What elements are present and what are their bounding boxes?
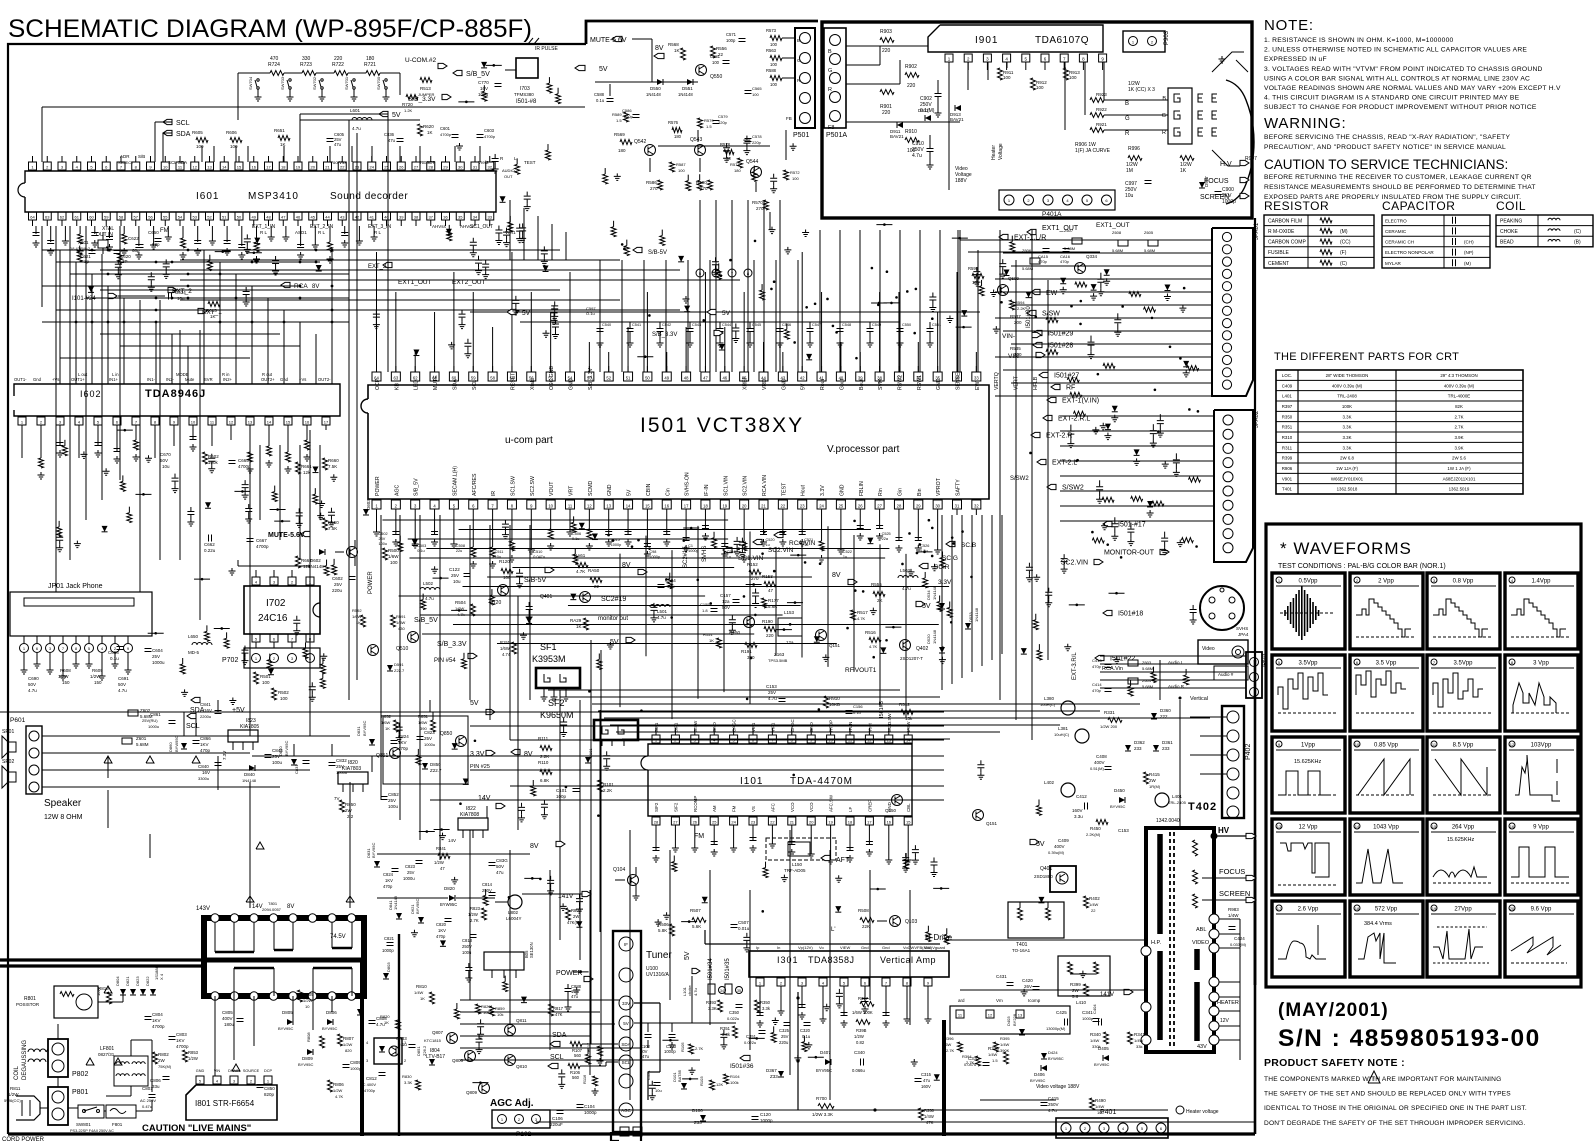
node	[331, 285, 334, 288]
node	[607, 534, 610, 537]
node	[908, 532, 911, 535]
CRT electrode	[1198, 128, 1203, 136]
svg-text:3.3V: 3.3V	[820, 485, 826, 496]
pin 58 I501 top	[488, 372, 497, 381]
svg-text:D821: D821	[125, 976, 130, 986]
svg-text:SIF1: SIF1	[654, 722, 659, 732]
svg-text:L380: L380	[1044, 696, 1055, 701]
coil L150 TRF-AD05	[766, 838, 836, 860]
svg-text:ADR: ADR	[120, 154, 130, 159]
svg-text:12a: 12a	[722, 599, 730, 604]
svg-text:K3953M: K3953M	[532, 654, 566, 664]
svg-text:22u: 22u	[456, 549, 462, 553]
wire	[117, 429, 133, 431]
pin 8 I501 bottom	[507, 500, 516, 509]
svg-text:CREF: CREF	[867, 800, 872, 812]
wire	[1060, 460, 1214, 462]
pin 26 I601 top	[397, 162, 405, 170]
wire	[746, 583, 762, 585]
svg-text:1/4W: 1/4W	[414, 990, 424, 995]
wire	[419, 831, 435, 833]
pin 4 I601 top	[73, 162, 81, 170]
svg-text:C106: C106	[552, 1116, 563, 1121]
svg-text:100K: 100K	[1342, 404, 1352, 409]
wire	[1011, 304, 1212, 306]
capacitor	[867, 329, 874, 332]
svg-text:Rin: Rin	[878, 488, 884, 496]
pin 51 I601 bottom	[220, 212, 228, 220]
tag 8V top	[654, 53, 664, 58]
safety triangle symbol	[1368, 1071, 1380, 1083]
wire	[1060, 505, 1214, 507]
T801 bottom pin 7	[328, 992, 336, 1000]
wire	[101, 254, 103, 500]
node	[951, 536, 954, 539]
pin 58 I601 bottom	[117, 212, 125, 220]
tag 8V right	[848, 579, 857, 584]
svg-text:C340: C340	[854, 1050, 865, 1055]
wire I301 pin drop	[822, 992, 824, 1016]
wire	[497, 643, 837, 645]
svg-text:TEST: TEST	[781, 482, 787, 496]
wire	[821, 292, 823, 372]
svg-text:12K: 12K	[716, 1082, 723, 1087]
node	[871, 267, 874, 270]
svg-text:64: 64	[30, 214, 35, 219]
capacitor C157	[733, 600, 740, 603]
svg-text:35: 35	[458, 214, 463, 219]
node	[961, 530, 964, 533]
capacitor	[687, 329, 694, 332]
svg-text:R921: R921	[1096, 122, 1107, 127]
svg-text:AC 400V: AC 400V	[360, 1082, 376, 1087]
svg-text:53: 53	[193, 214, 198, 219]
pin 39 I601 bottom	[397, 212, 405, 220]
wire	[382, 519, 728, 521]
resistor	[697, 180, 702, 190]
svg-text:100u: 100u	[462, 950, 472, 955]
svg-text:R516: R516	[865, 630, 876, 635]
svg-text:10u: 10u	[495, 555, 501, 559]
pin 13 I101 top	[885, 735, 893, 743]
svg-text:BYW95C: BYW95C	[174, 735, 179, 752]
resistor R901	[880, 90, 894, 95]
svg-text:KIA7808: KIA7808	[460, 812, 479, 818]
ground	[411, 930, 418, 937]
svg-text:C120: C120	[760, 1112, 771, 1117]
svg-text:HEATER: HEATER	[1217, 1000, 1239, 1006]
capacitor	[472, 238, 474, 242]
svg-text:G: G	[797, 58, 801, 63]
wire	[267, 298, 269, 384]
node	[459, 802, 462, 805]
svg-text:39: 39	[399, 214, 404, 219]
ground	[931, 564, 938, 571]
pin 30 I501 bottom	[933, 500, 942, 509]
svg-text:VERTQ: VERTQ	[994, 372, 1000, 390]
transistor Q811	[505, 1025, 516, 1036]
svg-text:I602: I602	[80, 389, 102, 399]
waveforms panel	[1266, 524, 1581, 987]
svg-text:0.022u: 0.022u	[727, 1016, 739, 1021]
svg-text:13: 13	[248, 419, 253, 424]
svg-text:SC2.VIN: SC2.VIN	[743, 476, 749, 496]
wire	[776, 629, 792, 631]
resistor R810	[430, 992, 435, 1004]
svg-text:2W 6.8: 2W 6.8	[1340, 456, 1354, 461]
svg-text:H.P.: H.P.	[1151, 940, 1161, 946]
svg-text:C98: C98	[649, 550, 656, 554]
node	[793, 341, 796, 344]
capacitor C104	[577, 1105, 584, 1108]
capacitor C341	[1093, 1019, 1100, 1022]
svg-text:SC2#19: SC2#19	[601, 596, 626, 603]
svg-text:BYV95C: BYV95C	[322, 1026, 337, 1031]
pin 20 I601 top	[309, 162, 317, 170]
wire	[454, 146, 456, 162]
node	[539, 878, 542, 881]
svg-text:5.68M: 5.68M	[1064, 246, 1075, 251]
resistor	[454, 1009, 459, 1019]
svg-text:I501#34: I501#34	[708, 958, 714, 980]
wire I501 pin drop	[840, 515, 842, 547]
capacitor C888	[565, 989, 572, 992]
wire	[723, 551, 725, 692]
node	[187, 249, 190, 252]
svg-text:1043 Vpp: 1043 Vpp	[1373, 825, 1399, 831]
diode D450	[1119, 797, 1125, 803]
pin 8 I602	[151, 417, 159, 425]
svg-text:EXT_2: EXT_2	[172, 288, 192, 295]
svg-text:470p: 470p	[1092, 664, 1102, 669]
pin 10 I501 bottom	[546, 500, 555, 509]
capacitor	[521, 803, 523, 807]
resistor R450	[1096, 820, 1108, 825]
wire I501 pin drop	[763, 515, 765, 535]
resistor	[78, 234, 83, 244]
svg-text:18: 18	[281, 164, 286, 169]
svg-text:47u: 47u	[642, 1054, 650, 1059]
capacitor	[498, 226, 500, 230]
svg-text:100u: 100u	[272, 760, 283, 765]
svg-text:16: 16	[305, 419, 310, 424]
svg-text:Vo: Vo	[819, 945, 824, 950]
svg-text:20: 20	[1510, 906, 1515, 911]
svg-text:DCP: DCP	[264, 1069, 272, 1073]
svg-text:180: 180	[734, 168, 741, 173]
svg-text:15.625KHz: 15.625KHz	[1294, 759, 1321, 765]
svg-text:560: 560	[572, 1075, 580, 1080]
wire	[180, 259, 620, 261]
pin 3 I601 top	[58, 162, 66, 170]
resistor R350	[755, 1000, 760, 1012]
svg-text:D997: D997	[1204, 176, 1209, 187]
svg-text:Audio #: Audio #	[1218, 672, 1234, 677]
pin 1 I901	[945, 54, 953, 62]
pin 8 JP01	[72, 644, 81, 653]
wire	[604, 717, 1210, 719]
node	[886, 270, 889, 273]
svg-text:47K(M): 47K(M)	[567, 920, 581, 925]
svg-text:1/4W: 1/4W	[1000, 1042, 1010, 1047]
wire	[451, 609, 467, 611]
svg-text:B: B	[828, 49, 832, 55]
svg-text:C665: C665	[238, 458, 249, 463]
svg-text:1362.5019: 1362.5019	[1449, 487, 1470, 492]
pin 14 I101 top	[904, 735, 912, 743]
svg-text:R808: R808	[306, 1032, 311, 1042]
resistor R615	[208, 302, 220, 307]
svg-text:CERAMIC CH: CERAMIC CH	[1385, 240, 1414, 245]
diode D100	[700, 1115, 706, 1121]
resistor R580	[708, 180, 713, 190]
wire	[715, 200, 717, 372]
svg-text:D591: D591	[394, 662, 404, 667]
resistor R922	[1090, 113, 1104, 118]
svg-text:R570: R570	[752, 200, 763, 205]
wire HV	[1214, 835, 1246, 837]
capacitor	[341, 233, 348, 236]
tag S/B_3.3V top	[442, 94, 451, 99]
svg-text:18: 18	[1355, 906, 1360, 911]
ground	[794, 1055, 801, 1062]
svg-text:0.5Vpp: 0.5Vpp	[1298, 579, 1318, 585]
svg-text:TDA8358J: TDA8358J	[808, 955, 855, 965]
svg-text:2.7K: 2.7K	[470, 918, 479, 923]
pin 23 I101 bottom	[749, 817, 757, 825]
svg-text:C836: C836	[384, 132, 395, 137]
tag SDA tuner	[550, 1041, 560, 1046]
wire	[219, 262, 221, 384]
svg-text:Z33: Z33	[694, 1120, 702, 1125]
svg-text:FOCUS: FOCUS	[1219, 867, 1245, 876]
pin 61 I601 bottom	[73, 212, 81, 220]
node	[107, 249, 110, 252]
svg-text:CARBON FILM: CARBON FILM	[1268, 218, 1302, 224]
resistor	[1144, 307, 1156, 312]
tag SCL tuner	[548, 1063, 558, 1068]
wire I602 pin drop	[192, 430, 194, 440]
capacitor C634	[118, 295, 165, 297]
svg-text:Xtalo: Xtalo	[530, 378, 536, 390]
transistor Q334	[1075, 263, 1086, 274]
wire	[85, 226, 87, 520]
capacitor C650	[155, 239, 162, 242]
svg-text:1/4W: 1/4W	[988, 1052, 998, 1057]
svg-text:C1: C1	[688, 544, 693, 548]
transistor Q601 mute	[347, 547, 358, 558]
connector P401A	[999, 190, 1115, 210]
resistor	[207, 261, 212, 271]
svg-text:VIF1: VIF1	[751, 722, 756, 732]
wire	[399, 595, 705, 597]
pin 52 I501 top	[604, 372, 613, 381]
wire	[801, 544, 803, 657]
FOCUS tag	[1240, 177, 1249, 182]
node	[854, 589, 857, 592]
diode D911	[897, 122, 903, 128]
svg-text:POWER: POWER	[556, 970, 582, 977]
pin 22 I101 bottom	[768, 817, 776, 825]
capacitor C155	[711, 609, 718, 612]
node	[853, 520, 856, 523]
svg-text:O.1u: O.1u	[586, 311, 595, 316]
svg-text:C821: C821	[384, 936, 395, 941]
svg-text:C549: C549	[872, 323, 881, 327]
wires top switches to I601	[399, 73, 401, 95]
wire I501 pin drop	[801, 515, 803, 535]
node	[970, 576, 973, 579]
svg-text:9.6 Vpp: 9.6 Vpp	[1531, 907, 1552, 913]
pin 7 I301	[882, 978, 890, 986]
wire	[819, 230, 821, 372]
wire	[100, 269, 680, 271]
wire	[951, 515, 953, 684]
svg-text:100: 100	[230, 144, 238, 149]
diode	[934, 1074, 940, 1080]
node	[299, 285, 302, 288]
capacitor C350	[736, 1005, 743, 1008]
tag 5V rail3	[707, 309, 716, 314]
tag EW	[1031, 289, 1040, 294]
pin 6 I101 top	[749, 735, 757, 743]
ground	[450, 541, 457, 548]
wires H area	[944, 939, 1146, 941]
resistor	[784, 329, 789, 339]
capacitor	[711, 842, 718, 845]
svg-text:R620: R620	[423, 124, 434, 129]
svg-text:MD-5: MD-5	[188, 650, 199, 655]
svg-text:ELECTRO NONPOLAR: ELECTRO NONPOLAR	[1385, 250, 1434, 255]
svg-text:SOURCE: SOURCE	[243, 1069, 260, 1073]
svg-text:Z606: Z606	[1022, 248, 1032, 253]
svg-text:TO-16A1: TO-16A1	[1012, 948, 1031, 953]
resistor R576	[672, 128, 682, 133]
tag SCL2	[187, 713, 196, 718]
wire	[671, 550, 673, 719]
pin 16 I501 bottom	[662, 500, 671, 509]
svg-text:7.5K: 7.5K	[328, 464, 337, 469]
svg-text:10: 10	[163, 164, 168, 169]
rail above I501	[470, 311, 980, 313]
svg-text:AC 250V: AC 250V	[140, 1098, 156, 1103]
svg-text:SCL: SCL	[176, 120, 190, 127]
ground	[165, 234, 172, 241]
svg-text:20: 20	[742, 503, 747, 508]
svg-text:CAUTION "LIVE MAINS": CAUTION "LIVE MAINS"	[142, 1123, 251, 1134]
svg-text:L in: L in	[112, 372, 119, 377]
capacitor C504	[658, 585, 665, 588]
svg-text:R922: R922	[1096, 107, 1107, 112]
diode D830	[291, 759, 297, 765]
wire	[510, 785, 944, 787]
node	[648, 547, 651, 550]
pin 7 I602	[132, 417, 140, 425]
ground	[47, 667, 54, 674]
node	[1183, 287, 1186, 290]
svg-text:R L: R L	[260, 230, 268, 235]
wire	[510, 739, 944, 741]
svg-text:R399: R399	[1282, 456, 1293, 461]
svg-text:100: 100	[196, 144, 204, 149]
node 34	[719, 987, 726, 994]
svg-text:EXT1_OUT: EXT1_OUT	[1096, 222, 1130, 229]
svg-text:C804: C804	[152, 1012, 163, 1017]
svg-text:12a: 12a	[786, 640, 794, 645]
wire I602 pin drop	[154, 430, 156, 458]
wire I602 pin drop	[97, 430, 99, 446]
svg-text:2094.0057: 2094.0057	[262, 907, 282, 912]
svg-text:SE130N: SE130N	[529, 942, 534, 958]
wire	[1190, 754, 1227, 756]
svg-text:MOD.SW: MOD.SW	[887, 713, 892, 732]
pin I801 DCP	[264, 1076, 272, 1084]
pin 62 I601 bottom	[58, 212, 66, 220]
pin 35 I601 bottom	[456, 212, 464, 220]
svg-text:SDA: SDA	[621, 1042, 630, 1047]
waveform cell 8	[1505, 655, 1578, 731]
node	[1169, 346, 1172, 349]
svg-text:141V: 141V	[1100, 992, 1114, 998]
node	[1157, 430, 1160, 433]
svg-text:L401: L401	[1172, 794, 1183, 799]
wire	[995, 278, 1212, 280]
wire	[329, 146, 331, 162]
pin 34 I501 top	[953, 372, 962, 381]
resistor	[57, 527, 62, 537]
resistor R806	[328, 1080, 333, 1092]
svg-text:MUTE: MUTE	[433, 375, 439, 390]
node	[1195, 545, 1198, 548]
node	[952, 542, 955, 545]
resistor	[712, 538, 717, 548]
svg-text:SCREEN: SCREEN	[1219, 889, 1250, 898]
wire	[790, 554, 806, 556]
svg-text:100: 100	[792, 176, 799, 181]
transistor Q550	[696, 65, 707, 76]
capacitor	[238, 245, 245, 248]
svg-text:16V: 16V	[202, 770, 210, 775]
wire	[214, 627, 230, 629]
svg-text:4.7u: 4.7u	[425, 596, 434, 601]
capacitor C83G	[489, 863, 496, 866]
svg-text:Q543: Q543	[690, 137, 702, 143]
svg-text:VRD: VRD	[762, 379, 768, 390]
svg-text:ABL: ABL	[1196, 927, 1206, 933]
pin 6 JP01	[33, 644, 42, 653]
wire JP01 drop	[75, 653, 77, 661]
svg-text:180: 180	[674, 134, 682, 139]
svg-text:SC.B: SC.B	[961, 542, 976, 549]
diode D361	[1153, 745, 1159, 751]
diode	[1060, 278, 1066, 284]
tag HV	[1246, 833, 1256, 838]
svg-text:EXT-2.R.L: EXT-2.R.L	[1058, 416, 1090, 423]
wire	[430, 755, 944, 757]
svg-text:4.7u: 4.7u	[1048, 1108, 1057, 1113]
svg-text:I801 STR-F6654: I801 STR-F6654	[195, 1099, 255, 1108]
svg-text:31: 31	[473, 164, 478, 169]
pin 8 I901	[1079, 54, 1087, 62]
capacitor	[194, 241, 201, 244]
capacitor	[741, 538, 743, 542]
svg-text:C104: C104	[584, 1104, 595, 1109]
waveform cell 14	[1350, 819, 1423, 895]
svg-text:CEMENT: CEMENT	[1268, 261, 1289, 267]
capacitor	[721, 544, 728, 547]
svg-text:41: 41	[370, 214, 375, 219]
svg-text:1u: 1u	[843, 555, 847, 559]
